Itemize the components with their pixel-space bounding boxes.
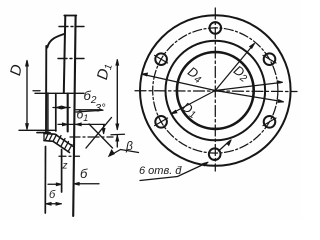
svg-text:β: β	[125, 139, 133, 153]
angle arc arrow	[103, 126, 105, 133]
bolt hole upper-right	[264, 53, 276, 65]
beta leader	[110, 150, 139, 156]
svg-text:D4: D4	[184, 64, 206, 87]
dimension D1: line	[116, 60, 118, 129]
D3 radial pair (right)	[215, 83, 281, 91]
lower middle vertical	[61, 150, 63, 193]
hatch band outline (flared lip in section)	[44, 133, 74, 147]
b2 dimension line	[35, 92, 84, 94]
D arrows	[26, 60, 29, 66]
bolt circle dash-dot	[153, 28, 278, 153]
outer shell left wall	[45, 46, 47, 132]
bolt hole upper-left	[155, 53, 167, 65]
D2 radial arrow (up-right)	[215, 45, 253, 91]
svg-text:D1: D1	[179, 99, 200, 121]
vertical centerline	[214, 8, 216, 171]
centerline y=137	[70, 136, 113, 138]
beta construction diagonals	[86, 118, 112, 149]
pipe left wall (upper)	[64, 16, 66, 93]
centerline tick y=26.5	[59, 26, 84, 28]
centerline tick y=156.5	[59, 155, 80, 157]
dimension D: line	[26, 61, 28, 129]
circle D2 solid	[166, 41, 266, 141]
inner verticals of mid band	[47, 93, 49, 132]
bolt hole top	[210, 22, 222, 34]
svg-text:6 отв. d̄: 6 отв. d̄	[139, 165, 182, 177]
b1 dimension line	[58, 123, 105, 125]
hub S-curve to outer shell	[47, 34, 64, 48]
leader 6 holes	[140, 163, 207, 181]
centerline tick y=58.5	[58, 58, 84, 60]
bolt hole lower-left	[155, 116, 167, 128]
3 deg extension lines	[76, 109, 102, 111]
svg-text:D1: D1	[94, 62, 115, 82]
svg-text:z: z	[62, 161, 68, 172]
D1 radial arrow (down-left)	[173, 91, 216, 114]
axis tick y=91	[33, 90, 40, 92]
inner circle thick	[177, 52, 254, 129]
svg-text:б: б	[49, 189, 56, 201]
lip thickness arrows right	[116, 135, 119, 141]
svg-text:б: б	[80, 166, 88, 181]
outer circle	[140, 15, 291, 166]
arrow from bottom hole to inner circle	[219, 141, 230, 151]
b2 inner arrows	[53, 107, 70, 109]
pipe top edge	[64, 15, 76, 17]
horizontal centerline	[135, 90, 297, 93]
flange top face extension line	[19, 129, 56, 131]
svg-text:D: D	[7, 63, 26, 77]
D4 radial arrow (up-left to outer circle)	[144, 75, 216, 91]
B dimension bottom	[46, 203, 62, 205]
pipe right wall (full length, slight scan tilt)	[73, 16, 75, 217]
b (wall) dimension	[48, 183, 60, 185]
bolt hole bottom	[209, 148, 221, 160]
lower-left extension line	[44, 147, 46, 214]
bolt hole lower-right	[264, 116, 276, 128]
svg-text:3°: 3°	[95, 103, 106, 115]
hatching	[43, 133, 45, 140]
hatch top ledge	[37, 132, 50, 134]
